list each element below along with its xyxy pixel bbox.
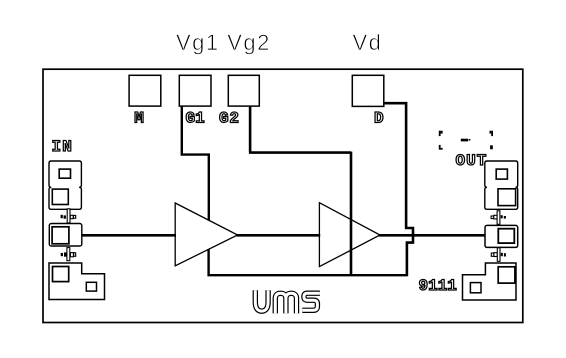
via square large (IN bottom pad) <box>53 267 69 282</box>
via square large (OUT top pad) <box>498 189 516 206</box>
fiducial mark P (left top) <box>439 131 443 136</box>
wire D pad down to output junction <box>384 102 414 276</box>
wire A1 feedback down <box>208 249 408 276</box>
svg-text:Vd: Vd <box>353 30 383 55</box>
via square large (OUT bottom pad) <box>498 267 515 283</box>
svg-text:G2: G2 <box>219 109 240 127</box>
wire G1 pad to A1 gate <box>181 106 210 221</box>
svg-text:9111: 9111 <box>419 277 457 295</box>
svg-text:M: M <box>134 109 144 127</box>
amplifier A1 <box>175 203 237 266</box>
via square small (IN top pad) <box>59 169 70 178</box>
pad M <box>129 75 161 106</box>
via symbol L2 <box>61 248 76 261</box>
via square small (IN bottom pad) <box>86 282 96 291</box>
svg-text:G1: G1 <box>186 109 205 127</box>
svg-text:D: D <box>374 109 384 127</box>
fiducial mark (right top) <box>490 131 494 136</box>
via symbol R2 <box>491 248 506 261</box>
via square (IN mid pad) <box>52 227 69 244</box>
pad G1 <box>179 75 211 106</box>
via square (OUT mid pad) <box>498 229 514 243</box>
pad IN mid (RF input pad) <box>49 224 82 247</box>
wire G2 pad to A2 gate (through line) <box>249 106 351 275</box>
pad OUT mid (RF output pad) <box>485 225 518 247</box>
pad D <box>352 75 384 106</box>
svg-text:OUT: OUT <box>456 152 488 170</box>
pad OUT top (two stacked rounded pads) <box>485 161 518 187</box>
wire A1 to A2 <box>237 234 321 237</box>
via symbol L1 <box>61 209 76 223</box>
fiducial mark L (left bottom) <box>439 145 443 150</box>
wire A2 to OUT pad <box>379 234 486 237</box>
via square small (OUT bottom pad) <box>470 283 481 293</box>
UMS logo <box>255 290 320 313</box>
pad IN top (two stacked rounded pads) <box>49 161 81 187</box>
die outline <box>43 69 523 322</box>
svg-text:IN: IN <box>52 138 74 156</box>
fiducial mark (right bottom) <box>490 145 493 149</box>
svg-text:Vg1 Vg2: Vg1 Vg2 <box>176 30 271 55</box>
amplifier A2 <box>319 203 380 267</box>
fiducial dash arrow <box>461 139 471 142</box>
wire IN pad to A1 <box>82 234 176 237</box>
pad IN bottom (L-shaped ground pad) <box>49 263 105 300</box>
via symbol R1 <box>491 211 506 225</box>
via square small (OUT top pad) <box>496 169 507 179</box>
pad OUT bottom (L-shaped ground pad) <box>463 263 517 300</box>
via square large (IN top pad) <box>52 189 68 204</box>
pad G2 <box>228 75 259 106</box>
